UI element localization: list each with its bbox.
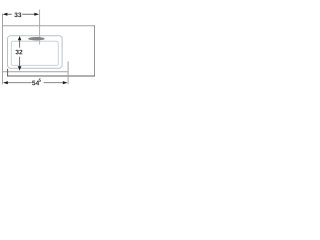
washbasin right edge bbox=[94, 25, 96, 76]
dimension 54.5 (bottom horizontal) bbox=[3, 79, 68, 86]
washbasin front edge (grey, ends at right extension line) bbox=[2, 71, 68, 73]
dimension 32 (left vertical) bbox=[15, 36, 22, 70]
cabinet left edge tick (dark) bbox=[7, 69, 9, 77]
extension line right of dim 33 (x=39.6, down to basin slot centre) bbox=[39, 10, 41, 45]
washbasin top edge bbox=[2, 25, 95, 27]
dimension 33 (top horizontal) bbox=[3, 12, 40, 17]
cabinet front edge (dark) bbox=[7, 75, 95, 77]
basin rim rounded rectangle bbox=[8, 36, 63, 68]
extension line right of dim 54.5 (x=68.1) bbox=[67, 62, 69, 85]
overflow slot (dark oval) bbox=[28, 37, 45, 41]
extension line left (x=2.5, from top dim down to bottom dim) bbox=[2, 14, 4, 85]
basin inner rounded rectangle bbox=[11, 41, 58, 65]
